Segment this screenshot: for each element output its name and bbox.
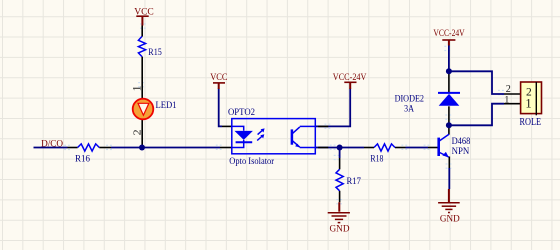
svg-text:R17: R17 xyxy=(347,176,362,187)
svg-text:VCC: VCC xyxy=(210,72,227,83)
svg-text:Opto Isolator: Opto Isolator xyxy=(229,156,274,167)
svg-text:GND: GND xyxy=(330,224,350,235)
svg-text:R16: R16 xyxy=(75,154,90,165)
svg-text:D/CO: D/CO xyxy=(41,139,63,150)
svg-text:NPN: NPN xyxy=(452,146,470,157)
svg-text:3A: 3A xyxy=(404,104,414,115)
svg-text:1: 1 xyxy=(525,97,531,111)
svg-text:R15: R15 xyxy=(148,47,162,58)
svg-text:VCC: VCC xyxy=(134,6,154,17)
svg-text:LED1: LED1 xyxy=(156,100,177,111)
svg-text:VCC-24V: VCC-24V xyxy=(333,72,367,83)
svg-text:1: 1 xyxy=(504,95,509,106)
svg-text:R18: R18 xyxy=(370,153,383,164)
svg-text:OPTO2: OPTO2 xyxy=(228,107,255,118)
svg-text:GND: GND xyxy=(440,214,460,225)
svg-text:2: 2 xyxy=(132,129,144,135)
svg-text:1: 1 xyxy=(132,85,144,91)
svg-text:VCC-24V: VCC-24V xyxy=(433,28,464,39)
svg-text:ROLE: ROLE xyxy=(520,117,542,128)
svg-text:2: 2 xyxy=(506,84,511,95)
